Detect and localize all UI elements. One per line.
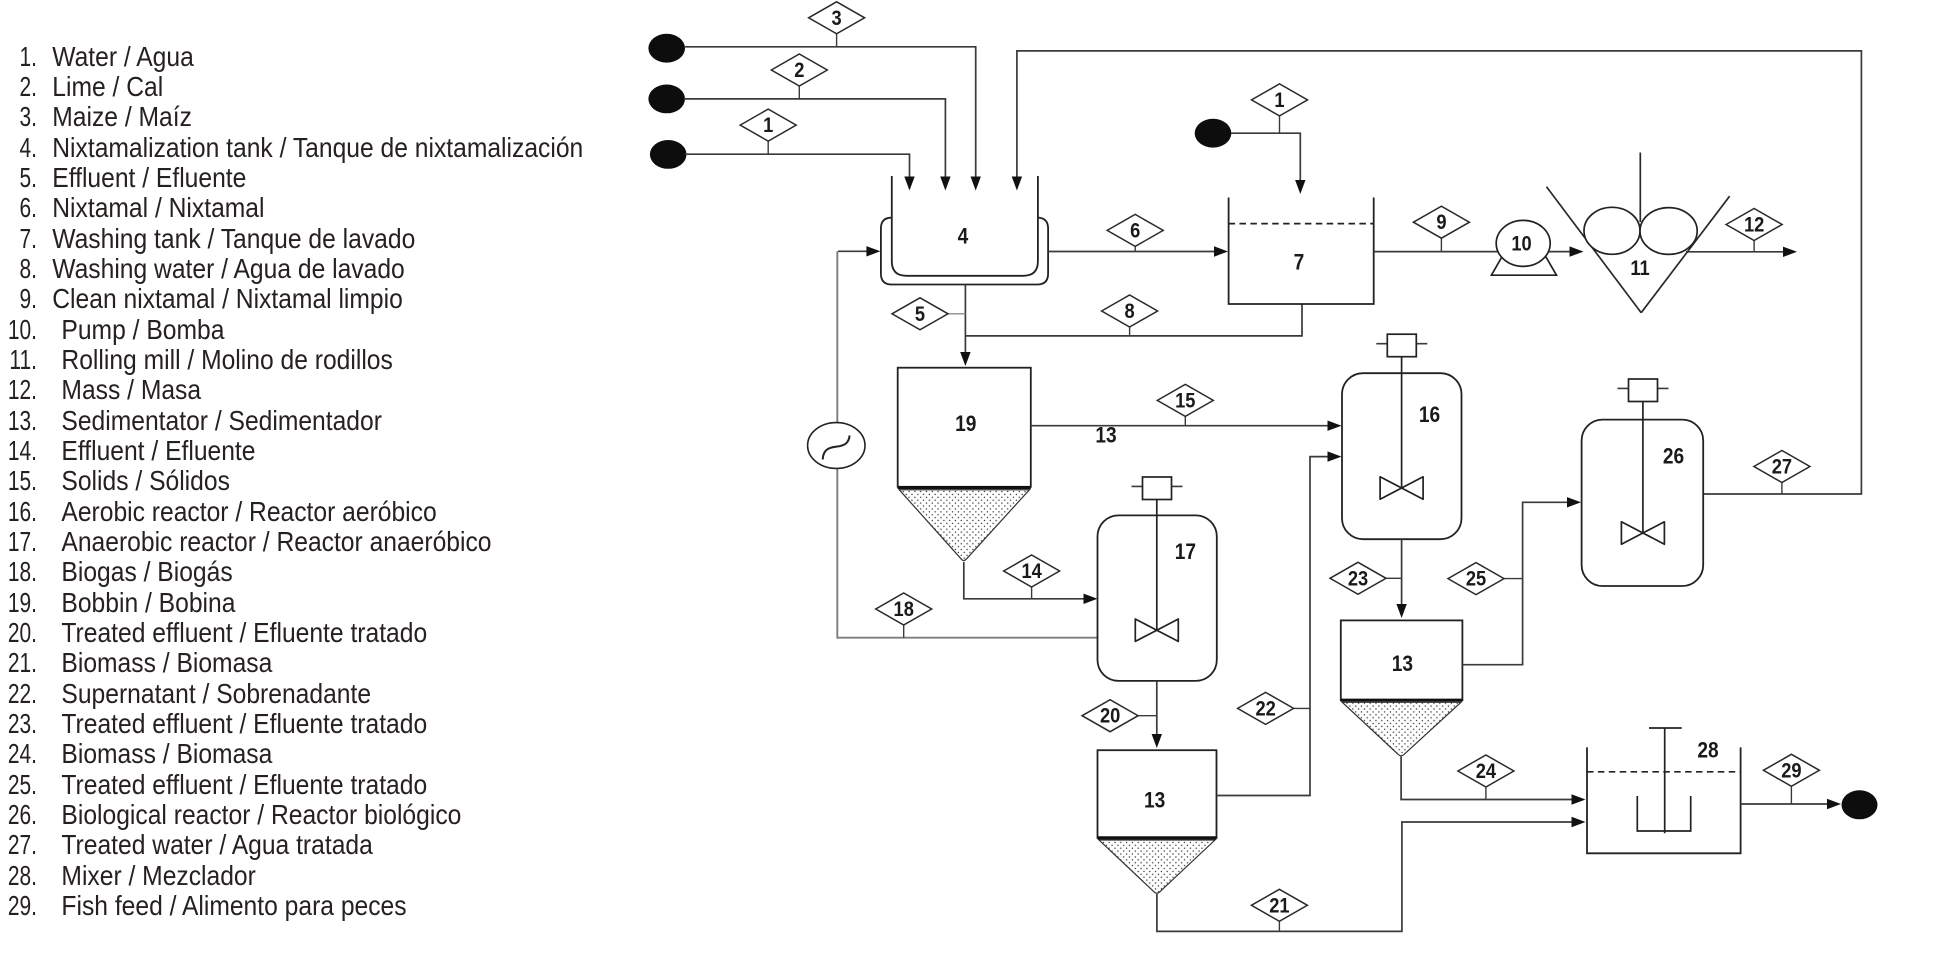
svg-text:1: 1 xyxy=(763,114,773,138)
biogas generator symbol xyxy=(808,423,865,469)
mixer 28 xyxy=(1587,728,1741,853)
biological reactor 26 xyxy=(1582,379,1704,586)
wire: stream 8 washing water line tank 7 bottom to vessel 19 xyxy=(965,304,1302,336)
sedimentator 13 (anaerobic line) xyxy=(1098,750,1217,893)
svg-text:17: 17 xyxy=(1175,539,1196,564)
source: washing water inlet (black terminal) xyxy=(1195,119,1232,148)
label 10 (pump) xyxy=(1511,232,1531,256)
stream diamond 9 (clean nixtamal) xyxy=(1413,206,1469,251)
label 13 on stream line xyxy=(1095,423,1116,448)
source: lime inlet (black terminal) xyxy=(648,85,685,114)
svg-text:27: 27 xyxy=(1772,455,1792,479)
wire: stream 25 treated effluent line sedimentator to reactor 26 xyxy=(1462,497,1581,665)
svg-text:13: 13 xyxy=(1095,423,1116,448)
source: water inlet (black terminal) xyxy=(650,140,687,169)
aerobic reactor 16 xyxy=(1342,334,1462,539)
svg-text:22: 22 xyxy=(1255,697,1275,721)
svg-text:10: 10 xyxy=(1511,232,1531,256)
svg-text:13: 13 xyxy=(1392,652,1413,677)
wire: stream 9 clean nixtamal line tank 7 to pump 10 and mill 11 xyxy=(1374,246,1584,256)
svg-text:3: 3 xyxy=(832,6,842,30)
stream diamond 25 (treated effluent) xyxy=(1448,563,1523,595)
svg-text:4: 4 xyxy=(958,224,969,249)
stream diamond 23 (treated effluent) xyxy=(1330,562,1402,594)
stream diamond 20 (treated effluent) xyxy=(1082,700,1157,732)
svg-text:2: 2 xyxy=(794,59,804,83)
rolling mill 11 xyxy=(1547,153,1730,313)
svg-text:14: 14 xyxy=(1021,560,1041,584)
stream diamond 22 (supernatant) xyxy=(1238,692,1310,724)
stream diamond 8 (washing water) xyxy=(1102,295,1158,336)
svg-text:26: 26 xyxy=(1663,444,1684,469)
source: maize inlet (black terminal) xyxy=(648,34,685,63)
svg-text:7: 7 xyxy=(1294,250,1305,275)
sedimentator 13 (aerobic line) xyxy=(1341,620,1463,756)
stream diamond 14 (effluent) xyxy=(1004,555,1060,599)
sink: fish feed (black terminal) xyxy=(1842,790,1878,819)
wire: stream 23 treated effluent line reactor 16 to sedimentator xyxy=(1396,539,1406,618)
wire: stream 29 fish feed outlet line xyxy=(1741,799,1841,809)
svg-text:23: 23 xyxy=(1348,567,1368,591)
wire: stream 14 effluent line vessel 19 bottom to reactor 17 xyxy=(964,562,1098,604)
label 13 (sedimentator, aerobic line) xyxy=(1392,652,1413,677)
stream diamond 1 (washing water) xyxy=(1252,84,1308,133)
svg-text:5: 5 xyxy=(915,302,925,326)
label 11 (rolling mill) xyxy=(1630,257,1649,281)
label 17 (anaerobic reactor) xyxy=(1175,539,1196,564)
wire: stream 1 washing water into tank 7 xyxy=(1231,133,1306,194)
label 4 (nixtamalization tank) xyxy=(958,224,969,249)
wire: stream 22 supernatant line sedimentator to reactor 16 xyxy=(1217,451,1342,795)
svg-text:20: 20 xyxy=(1100,704,1120,728)
wire: stream 21 biomass line sedimentator to mixer 28 xyxy=(1157,817,1586,932)
svg-text:6: 6 xyxy=(1130,219,1140,243)
svg-text:11: 11 xyxy=(1630,257,1649,281)
svg-text:18: 18 xyxy=(894,598,914,622)
wire: stream 6 nixtamal line tank 4 to tank 7 xyxy=(1048,246,1228,256)
anaerobic reactor 17 xyxy=(1098,477,1217,681)
label 19 (bobbin) xyxy=(955,412,976,437)
bobbin vessel 19 xyxy=(898,368,1031,561)
wire: stream 1 water line into tank 4 xyxy=(685,154,915,190)
wire: stream 2 lime line into tank 4 xyxy=(684,99,951,191)
stream diamond 29 (fish feed) xyxy=(1763,754,1819,804)
wire: stream 27 treated water return line (26 to tank 4) xyxy=(1012,51,1862,494)
wire: stream 24 biomass line sedimentator to mixer 28 xyxy=(1401,757,1585,805)
washing tank 7 xyxy=(1229,198,1374,305)
svg-text:29: 29 xyxy=(1781,759,1801,783)
label 7 (washing tank) xyxy=(1294,250,1305,275)
wire: stream 3 maize line into tank 4 xyxy=(684,47,981,191)
svg-text:25: 25 xyxy=(1466,567,1486,591)
stream diamond 12 (mass) xyxy=(1726,209,1782,252)
label 28 (mixer) xyxy=(1697,738,1718,763)
wire: stream 5 effluent line tank 4 bottom to vessel 19 xyxy=(960,285,970,367)
wire: stream 13 line vessel 19 to reactor 16 xyxy=(1031,421,1342,431)
stream diamond 18 (biogas) xyxy=(876,593,932,638)
stream diamond 27 (treated water) xyxy=(1754,451,1810,495)
svg-text:28: 28 xyxy=(1697,738,1718,763)
stream diamond 6 (nixtamal) xyxy=(1107,214,1163,251)
svg-text:16: 16 xyxy=(1419,402,1440,427)
stream diamond 15 (solids) xyxy=(1157,384,1213,425)
svg-text:21: 21 xyxy=(1269,894,1289,918)
label 13 (sedimentator, anaerobic line) xyxy=(1144,788,1165,813)
wire: heated biogas arrow into tank 4 xyxy=(838,246,880,256)
pump 10 xyxy=(1491,220,1556,275)
wire: stream 20 treated effluent line reactor 17 to sedimentator xyxy=(1152,681,1162,748)
stream diamond 24 (biomass) xyxy=(1458,755,1514,800)
stream diamond 5 (effluent) xyxy=(892,298,965,330)
svg-text:13: 13 xyxy=(1144,788,1165,813)
label 16 (aerobic reactor) xyxy=(1419,402,1440,427)
stream diamond 3 (maize) xyxy=(809,2,865,47)
svg-text:24: 24 xyxy=(1476,760,1496,784)
svg-text:19: 19 xyxy=(955,412,976,437)
svg-text:1: 1 xyxy=(1274,89,1284,113)
stream diamond 21 (biomass) xyxy=(1251,889,1307,931)
wire: stream 18 biogas line from reactor 17 to generator to tank 4 (gray) xyxy=(837,251,1097,637)
wire: stream 12 mass line mill 11 outlet xyxy=(1686,247,1797,257)
stream diamond 2 (lime) xyxy=(771,54,827,99)
svg-text:12: 12 xyxy=(1744,213,1764,237)
svg-text:15: 15 xyxy=(1175,389,1195,413)
label 26 (biological reactor) xyxy=(1663,444,1684,469)
stream diamond 1 (water) xyxy=(740,109,796,154)
svg-text:9: 9 xyxy=(1436,211,1446,235)
nixtamalization tank 4 xyxy=(881,176,1048,285)
svg-text:8: 8 xyxy=(1125,300,1135,324)
